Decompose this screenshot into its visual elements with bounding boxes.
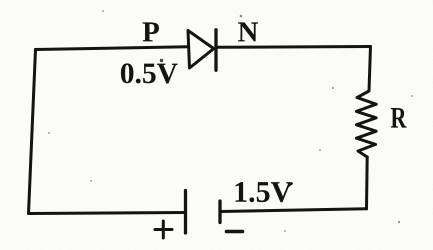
wire right side lower <box>365 157 369 209</box>
battery negative plate (short) <box>218 201 221 223</box>
label N <box>238 22 258 41</box>
diode D1 cathode bar <box>214 30 217 71</box>
ink mark above V of 0.5V <box>160 59 163 62</box>
wire bottom-right segment <box>220 209 367 212</box>
wire left side <box>29 50 36 214</box>
battery positive plate (long) <box>184 191 187 234</box>
label R <box>391 108 407 128</box>
label P <box>143 22 159 41</box>
diode D1 triangle anode <box>188 31 214 69</box>
label 1.5V <box>236 182 292 202</box>
stray tick after 1.5V <box>288 184 292 187</box>
plus symbol <box>155 221 172 238</box>
wire top-left segment <box>36 47 189 50</box>
wire top-right segment <box>216 45 371 49</box>
scan specks <box>48 10 413 232</box>
wire bottom-left segment <box>29 213 186 214</box>
minus symbol <box>227 230 243 234</box>
label 0.5V <box>121 63 178 83</box>
resistor R zigzag <box>356 47 376 158</box>
